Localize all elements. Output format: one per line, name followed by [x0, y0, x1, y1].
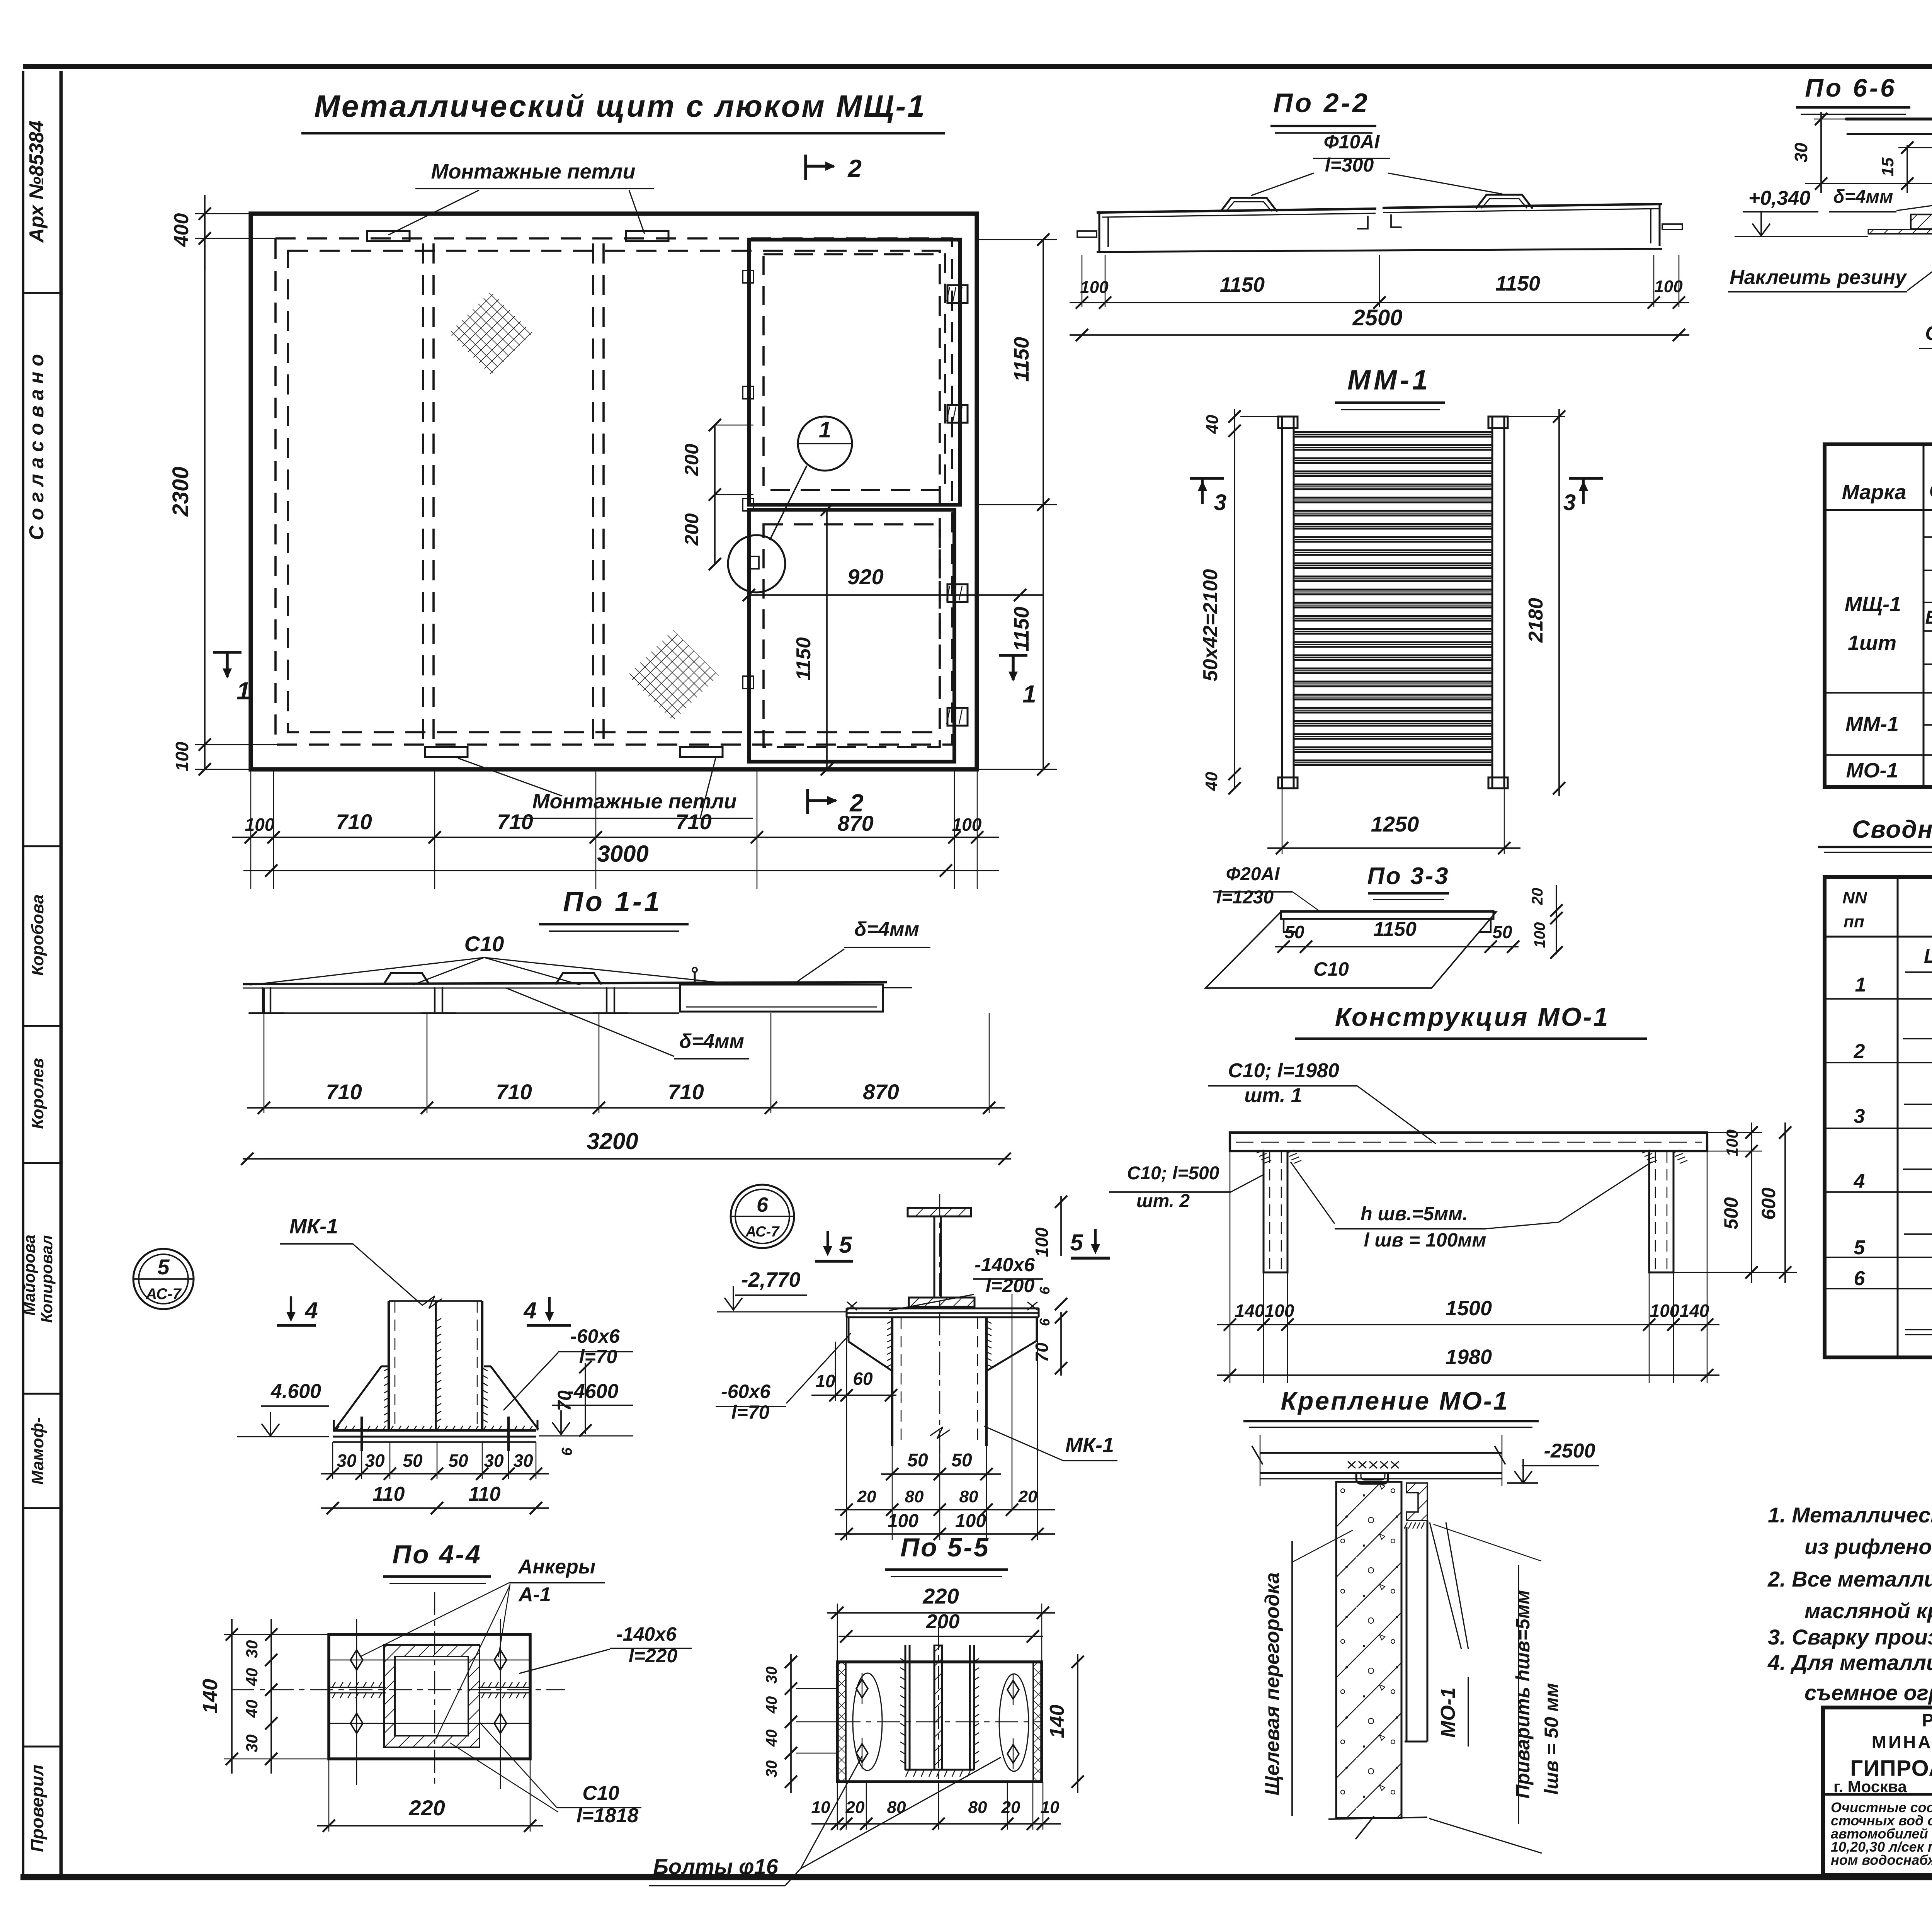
svg-text:3: 3	[1854, 1105, 1865, 1128]
svg-text:15: 15	[1878, 157, 1897, 176]
svg-text:30: 30	[243, 1735, 261, 1753]
svg-text:1150: 1150	[1010, 337, 1033, 382]
svg-text:2. Все металлические поверхнос: 2. Все металлические поверхности окрашив…	[1767, 1567, 1932, 1591]
svg-text:1150: 1150	[1220, 273, 1265, 296]
svg-text:1. Металлический щит мщ-1 съем: 1. Металлический щит мщ-1 съемный изгото…	[1768, 1503, 1932, 1527]
svg-text:400: 400	[170, 213, 193, 247]
svg-text:20: 20	[845, 1798, 865, 1817]
svg-text:-140x6: -140x6	[616, 1623, 677, 1645]
svg-text:l=70: l=70	[731, 1401, 770, 1423]
svg-text:г. Москва: г. Москва	[1833, 1777, 1907, 1796]
svg-text:30: 30	[243, 1640, 261, 1658]
svg-text:100: 100	[888, 1511, 918, 1531]
svg-text:10: 10	[811, 1798, 830, 1817]
svg-text:20: 20	[1001, 1798, 1020, 1817]
svg-text:4: 4	[304, 1298, 318, 1323]
svg-text:710: 710	[668, 1080, 704, 1104]
svg-text:50: 50	[1492, 922, 1512, 942]
svg-text:40: 40	[763, 1696, 780, 1714]
svg-text:С10; l=1980: С10; l=1980	[1228, 1060, 1339, 1082]
svg-text:1: 1	[819, 417, 831, 442]
svg-text:1шт: 1шт	[1848, 631, 1896, 655]
svg-text:-60x6: -60x6	[721, 1381, 771, 1402]
svg-text:1150: 1150	[1373, 918, 1417, 940]
svg-text:5: 5	[839, 1232, 852, 1258]
svg-text:50: 50	[951, 1450, 972, 1471]
svg-text:Ф10АI: Ф10АI	[1324, 131, 1380, 153]
svg-text:50: 50	[448, 1451, 468, 1471]
svg-text:-140x6: -140x6	[975, 1254, 1035, 1276]
svg-text:По 2-2: По 2-2	[1273, 88, 1370, 118]
svg-text:Конструкция МО-1: Конструкция МО-1	[1335, 1002, 1610, 1032]
svg-text:Королев: Королев	[28, 1058, 47, 1129]
svg-text:2: 2	[847, 155, 862, 182]
svg-text:δ=4мм: δ=4мм	[854, 918, 919, 940]
svg-text:+0,340: +0,340	[1748, 187, 1811, 209]
svg-text:МК-1: МК-1	[289, 1215, 338, 1238]
svg-text:Копировал: Копировал	[37, 1235, 56, 1323]
svg-text:Металлический щит с люком МЩ-1: Металлический щит с люком МЩ-1	[314, 89, 926, 123]
svg-text:съемное ограждение.: съемное ограждение.	[1804, 1680, 1932, 1705]
svg-text:5: 5	[1854, 1236, 1866, 1259]
svg-text:4.600: 4.600	[270, 1380, 321, 1403]
svg-text:40: 40	[243, 1700, 261, 1718]
svg-text:710: 710	[497, 810, 533, 834]
svg-text:ММ-1: ММ-1	[1347, 365, 1431, 396]
svg-text:1150: 1150	[1010, 607, 1033, 651]
svg-text:Крепление МО-1: Крепление МО-1	[1281, 1386, 1509, 1415]
svg-text:110: 110	[469, 1483, 501, 1505]
svg-text:100: 100	[1265, 1301, 1294, 1321]
svg-text:Наклеить резину: Наклеить резину	[1730, 266, 1907, 289]
svg-text:6: 6	[757, 1193, 769, 1216]
svg-text:20: 20	[857, 1487, 876, 1506]
svg-text:110: 110	[373, 1483, 405, 1505]
svg-text:Согласовано: Согласовано	[26, 349, 48, 540]
svg-text:Анкеры: Анкеры	[517, 1556, 595, 1578]
svg-text:δ=4мм: δ=4мм	[679, 1030, 744, 1053]
svg-text:1980: 1980	[1446, 1345, 1492, 1369]
svg-text:40: 40	[1203, 415, 1222, 434]
svg-text:100: 100	[245, 815, 275, 835]
svg-text:920: 920	[847, 565, 883, 589]
svg-text:30: 30	[484, 1451, 504, 1471]
svg-text:1: 1	[236, 677, 250, 705]
svg-text:пп: пп	[1844, 912, 1864, 931]
svg-text:3000: 3000	[597, 841, 648, 867]
svg-text:50: 50	[1284, 922, 1304, 942]
svg-text:200: 200	[681, 513, 702, 546]
svg-text:3200: 3200	[587, 1128, 638, 1154]
svg-text:50: 50	[403, 1451, 423, 1471]
svg-text:140: 140	[199, 1679, 222, 1714]
svg-text:100: 100	[1650, 1301, 1680, 1321]
svg-text:Сечение: Сечение	[1929, 479, 1932, 502]
svg-text:80: 80	[905, 1487, 924, 1506]
svg-text:30: 30	[763, 1667, 780, 1684]
svg-text:3. Сварку производить электрод: 3. Сварку производить электродами Э-42 h…	[1768, 1625, 1932, 1649]
svg-text:-2,770: -2,770	[741, 1268, 800, 1291]
svg-text:140: 140	[1680, 1301, 1709, 1321]
svg-text:из рифленой листовой стали.: из рифленой листовой стали.	[1804, 1534, 1932, 1559]
svg-text:РСФСР: РСФСР	[1922, 1710, 1932, 1730]
svg-text:710: 710	[675, 810, 711, 834]
svg-text:Арх №85384: Арх №85384	[26, 121, 48, 243]
svg-text:100: 100	[1723, 1129, 1741, 1156]
svg-text:2500: 2500	[1352, 305, 1402, 330]
svg-text:С10: С10	[582, 1782, 619, 1804]
svg-text:6: 6	[1854, 1267, 1866, 1290]
svg-text:Болты φ16: Болты φ16	[653, 1854, 778, 1879]
svg-text:ММ-1: ММ-1	[1845, 713, 1899, 736]
svg-text:870: 870	[837, 811, 873, 835]
svg-text:710: 710	[326, 1080, 362, 1104]
svg-text:50x42=2100: 50x42=2100	[1199, 569, 1222, 682]
svg-text:100: 100	[1080, 278, 1109, 297]
svg-text:МИНАВТОТРАНС: МИНАВТОТРАНС	[1872, 1732, 1932, 1752]
svg-text:600: 600	[1758, 1187, 1779, 1220]
svg-text:По 5-5: По 5-5	[900, 1533, 990, 1562]
svg-text:40: 40	[243, 1668, 261, 1687]
svg-text:δ=4мм: δ=4мм	[1833, 187, 1893, 207]
svg-text:6: 6	[1037, 1318, 1053, 1326]
svg-text:10: 10	[815, 1371, 835, 1391]
svg-text:870: 870	[863, 1080, 899, 1104]
svg-text:ном водоснабжении.: ном водоснабжении.	[1831, 1852, 1932, 1868]
svg-text:Швеллера по: Швеллера по	[1924, 945, 1932, 968]
svg-text:Проверил: Проверил	[27, 1765, 47, 1852]
svg-text:6: 6	[559, 1447, 575, 1456]
svg-text:МО-1: МО-1	[1437, 1687, 1459, 1738]
svg-text:-2500: -2500	[1544, 1440, 1595, 1462]
svg-text:4: 4	[1854, 1170, 1865, 1192]
svg-text:50: 50	[907, 1450, 928, 1471]
svg-text:Майорова: Майорова	[20, 1235, 38, 1316]
svg-text:500: 500	[1720, 1197, 1742, 1230]
svg-text:30: 30	[337, 1451, 357, 1471]
svg-text:lшв = 50 мм: lшв = 50 мм	[1541, 1683, 1562, 1794]
svg-text:30: 30	[513, 1451, 533, 1471]
svg-text:100: 100	[1654, 277, 1683, 296]
svg-text:100: 100	[952, 815, 982, 835]
svg-text:200: 200	[926, 1611, 960, 1633]
svg-text:200: 200	[681, 444, 702, 476]
svg-text:1: 1	[1022, 680, 1036, 708]
svg-text:80: 80	[887, 1798, 906, 1817]
svg-text:1150: 1150	[793, 637, 815, 680]
svg-text:3: 3	[1214, 490, 1226, 515]
svg-text:4: 4	[523, 1298, 536, 1323]
svg-text:2: 2	[1854, 1040, 1865, 1063]
svg-text:Приварить hшв=5мм: Приварить hшв=5мм	[1512, 1590, 1534, 1799]
svg-text:масляной краской за 2 раза.: масляной краской за 2 раза.	[1804, 1599, 1932, 1623]
svg-text:-60x6: -60x6	[570, 1325, 620, 1347]
svg-text:Ф20АI: Ф20АI	[1226, 864, 1281, 884]
svg-text:1: 1	[1855, 974, 1866, 996]
svg-text:l=300: l=300	[1325, 154, 1374, 176]
svg-text:100: 100	[172, 742, 192, 771]
svg-text:70: 70	[554, 1390, 575, 1411]
svg-text:3: 3	[1563, 490, 1576, 515]
svg-text:Марка: Марка	[1842, 481, 1906, 504]
svg-text:Коробова: Коробова	[28, 895, 47, 976]
svg-text:140: 140	[1046, 1705, 1068, 1738]
svg-text:70: 70	[1032, 1342, 1052, 1362]
svg-text:l=200: l=200	[986, 1275, 1035, 1296]
svg-text:1500: 1500	[1446, 1297, 1492, 1320]
svg-text:10: 10	[1041, 1798, 1060, 1817]
svg-text:С10; l=500: С10; l=500	[1127, 1163, 1219, 1184]
svg-text:80: 80	[959, 1487, 978, 1506]
svg-text:100: 100	[1032, 1227, 1052, 1257]
svg-text:20: 20	[1529, 888, 1546, 906]
svg-text:6: 6	[1037, 1286, 1053, 1294]
svg-text:100: 100	[955, 1511, 986, 1531]
svg-text:С10: С10	[1925, 322, 1932, 345]
svg-text:2180: 2180	[1525, 598, 1547, 643]
svg-text:По 1-1: По 1-1	[563, 886, 662, 917]
svg-text:710: 710	[336, 810, 372, 834]
svg-text:МЩ-1: МЩ-1	[1845, 593, 1901, 616]
svg-text:шт. 2: шт. 2	[1136, 1191, 1190, 1211]
svg-text:По 4-4: По 4-4	[392, 1540, 482, 1569]
svg-text:20: 20	[1018, 1487, 1037, 1506]
svg-text:А-1: А-1	[518, 1583, 551, 1606]
svg-text:шт. 1: шт. 1	[1244, 1084, 1302, 1107]
svg-text:Монтажные петли: Монтажные петли	[431, 160, 635, 183]
svg-text:h шв.=5мм.: h шв.=5мм.	[1361, 1203, 1468, 1225]
svg-text:МО-1: МО-1	[1846, 759, 1898, 782]
svg-text:l шв = 100мм: l шв = 100мм	[1364, 1229, 1486, 1251]
svg-text:NN: NN	[1842, 888, 1867, 907]
svg-text:40: 40	[1202, 772, 1221, 791]
svg-text:30: 30	[763, 1760, 780, 1778]
svg-text:100: 100	[1531, 922, 1548, 948]
svg-text:80: 80	[968, 1798, 987, 1817]
svg-text:АС-7: АС-7	[145, 1286, 182, 1303]
svg-text:С10: С10	[464, 932, 504, 956]
svg-text:Мамоф-: Мамоф-	[28, 1417, 47, 1485]
svg-text:1150: 1150	[1495, 272, 1540, 295]
svg-text:4. Для металлического мостика: 4. Для металлического мостика ММ-1 преду…	[1767, 1650, 1932, 1675]
svg-text:710: 710	[496, 1080, 532, 1104]
svg-text:40: 40	[763, 1730, 780, 1747]
svg-text:С10: С10	[1313, 958, 1349, 980]
svg-text:140: 140	[1235, 1301, 1265, 1321]
svg-text:30: 30	[365, 1451, 385, 1471]
svg-text:Щелевая перегородка: Щелевая перегородка	[1261, 1572, 1284, 1795]
svg-text:5: 5	[157, 1255, 170, 1279]
svg-text:220: 220	[408, 1796, 445, 1820]
svg-text:220: 220	[922, 1584, 959, 1608]
svg-text:По 6-6: По 6-6	[1805, 73, 1897, 102]
svg-text:Сводная техническая спецификац: Сводная техническая спецификация на лист	[1852, 815, 1932, 843]
svg-text:60: 60	[853, 1369, 873, 1389]
svg-text:5: 5	[1070, 1230, 1083, 1255]
svg-text:l=1230: l=1230	[1216, 887, 1274, 908]
svg-text:2300: 2300	[168, 466, 193, 517]
svg-text:МК-1: МК-1	[1065, 1434, 1114, 1457]
svg-text:30: 30	[1791, 143, 1811, 163]
svg-text:1250: 1250	[1371, 812, 1419, 836]
svg-text:По 3-3: По 3-3	[1367, 863, 1449, 889]
svg-text:АС-7: АС-7	[745, 1224, 780, 1240]
svg-text:Болт ф10: Болт ф10	[1925, 607, 1932, 628]
